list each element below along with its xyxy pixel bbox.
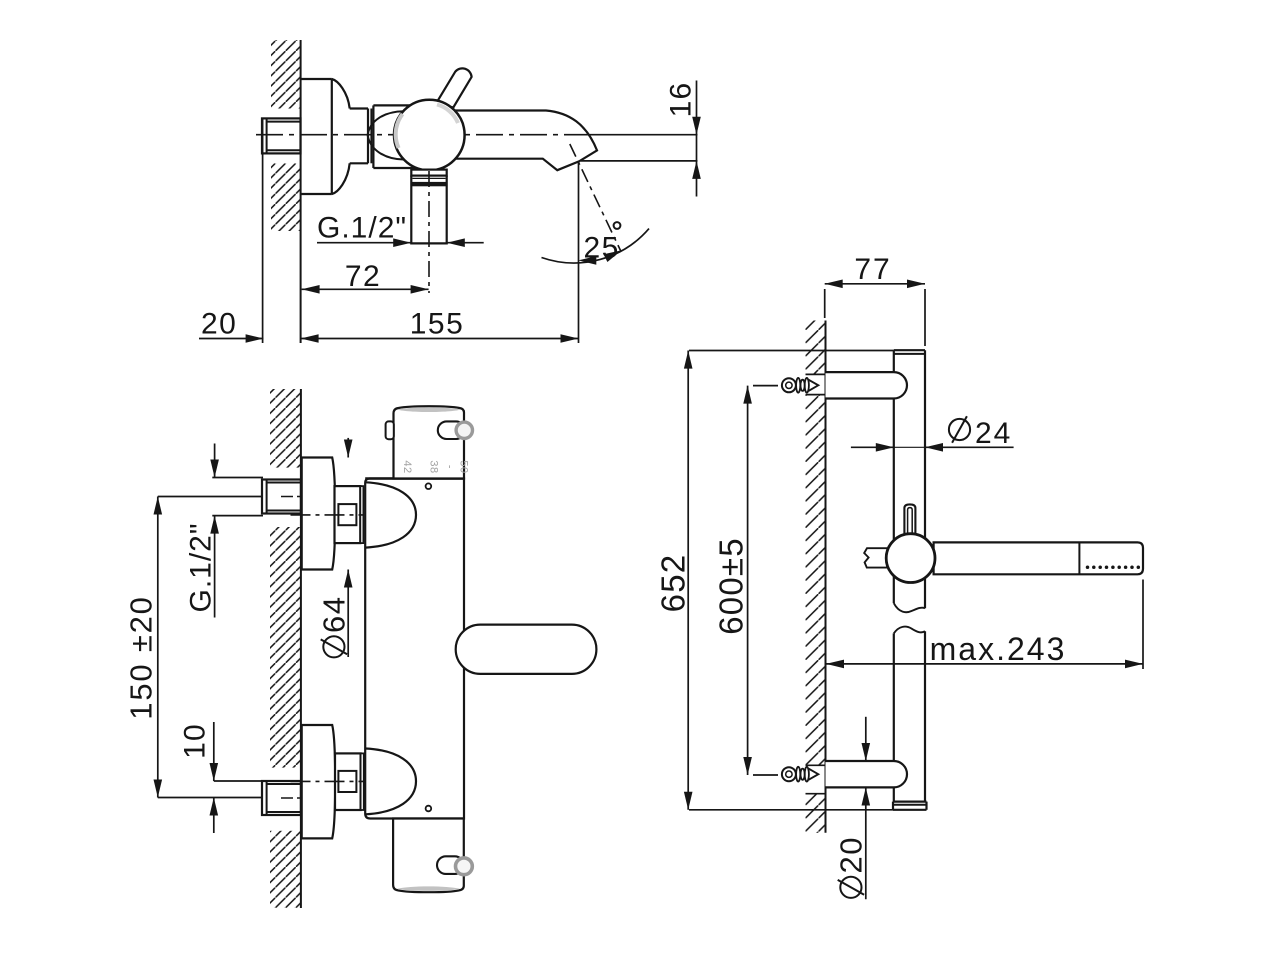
svg-text:38: 38 xyxy=(428,460,440,473)
svg-text:16: 16 xyxy=(665,82,698,118)
svg-text:150 ±20: 150 ±20 xyxy=(124,595,159,719)
svg-text:24: 24 xyxy=(975,417,1012,450)
svg-text:25: 25 xyxy=(584,231,620,264)
svg-text:max.243: max.243 xyxy=(930,631,1067,667)
svg-text:155: 155 xyxy=(410,308,465,341)
svg-text:-: - xyxy=(444,465,456,469)
svg-text:20: 20 xyxy=(201,308,237,341)
svg-text:64: 64 xyxy=(317,596,352,633)
svg-text:72: 72 xyxy=(345,260,381,293)
svg-text:600±5: 600±5 xyxy=(713,537,750,635)
svg-text:G.1/2": G.1/2" xyxy=(185,522,218,612)
svg-text:652: 652 xyxy=(655,554,692,613)
svg-text:50: 50 xyxy=(458,460,470,473)
svg-text:20: 20 xyxy=(834,836,869,873)
svg-text:77: 77 xyxy=(854,253,891,286)
svg-text:10: 10 xyxy=(179,723,212,759)
svg-text:42: 42 xyxy=(401,460,413,473)
